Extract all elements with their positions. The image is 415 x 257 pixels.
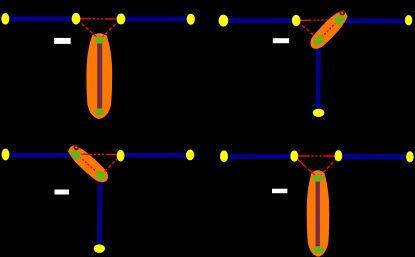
muscle belly (orange, tilted): [311, 11, 348, 49]
node A (yellow joint): [1, 13, 9, 24]
wire: red path C4-G1v: [319, 158, 337, 177]
node G2v (green attachment): [313, 246, 323, 254]
node C4 (yellow joint): [335, 150, 343, 161]
node G2b (green attachment): [93, 169, 107, 183]
white scale dash: [54, 38, 71, 44]
wire: link bar right: [340, 18, 406, 24]
node A3 (yellow joint): [2, 149, 10, 161]
node G1b (green attachment): [69, 148, 83, 162]
node E2 (yellow joint, bottom): [313, 109, 325, 117]
node B2 (yellow joint): [292, 15, 301, 26]
muscle belly (orange): [86, 33, 112, 119]
node G1 (green attachment): [94, 36, 105, 43]
node G1t (green attachment): [333, 13, 347, 27]
wire: red path C-G1: [101, 20, 120, 39]
node D2 (yellow joint): [405, 15, 412, 25]
muscle belly (orange, tilted): [68, 145, 108, 182]
muscle tendon arc (dark red): [340, 11, 344, 15]
wire: vertical link bar: [97, 178, 103, 244]
wire: link bar A3-B3: [5, 153, 74, 158]
wire: red path B2-G2t: [298, 22, 318, 39]
wire: link bar A2-B2: [224, 18, 296, 23]
node B (yellow joint): [72, 13, 81, 25]
node G1v (green attachment): [313, 174, 324, 182]
node B4 (yellow joint): [290, 151, 298, 162]
muscle belly (orange): [307, 170, 330, 256]
wire: red path C3-G2b: [102, 158, 119, 175]
node A4 (yellow joint): [220, 150, 228, 162]
wire: red path B4-C4: [299, 155, 335, 157]
wire: link bar A4-B4: [224, 154, 291, 159]
wire: red path B4-G1v: [296, 158, 317, 177]
muscle tendon line (maroon): [316, 181, 320, 248]
muscle tendon line (maroon): [97, 42, 102, 109]
white scale dash: [272, 189, 287, 194]
wire: red axis G2t-G1t: [319, 20, 339, 40]
wire: vertical link bar: [316, 42, 321, 110]
node C3 (yellow joint): [117, 150, 125, 162]
wire: red path B2-G1t: [301, 19, 340, 22]
wire: red path B-C: [80, 18, 118, 20]
node G2 (green attachment): [94, 109, 104, 116]
node E3 (yellow joint, bottom): [94, 244, 105, 253]
wire: link bar C-D: [121, 17, 190, 22]
node C (yellow joint): [117, 14, 126, 25]
white scale dash: [273, 38, 289, 43]
wire: link bar A-B: [5, 16, 76, 21]
wire: red path C3-G1b: [80, 153, 117, 155]
node D4 (yellow joint): [406, 151, 414, 162]
wire: red axis G1b-G2b: [76, 154, 100, 175]
white scale dash: [55, 190, 70, 195]
node G2t (green attachment): [312, 33, 326, 47]
node A2 (yellow joint): [219, 15, 229, 27]
wire: red path B-G1: [78, 20, 100, 39]
muscle tendon arc (dark red): [74, 145, 78, 149]
node D (yellow joint): [187, 14, 195, 25]
wire: link bar C3-D3: [121, 153, 186, 158]
wire: link bar C4-D4: [342, 154, 406, 160]
node D3 (yellow joint): [186, 150, 194, 161]
